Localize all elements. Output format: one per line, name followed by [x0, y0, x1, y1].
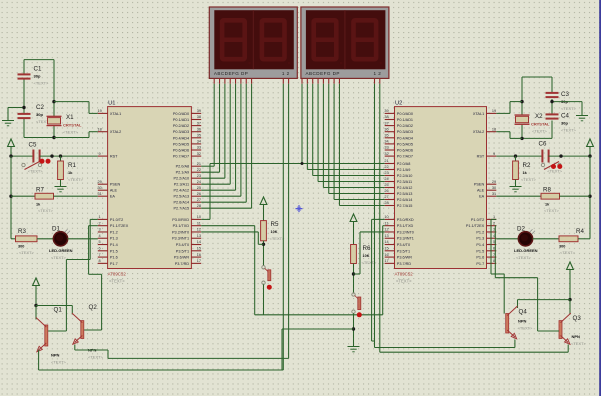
svg-text:ALE: ALE [110, 189, 118, 193]
svg-text:6: 6 [99, 247, 101, 251]
transistor Q1 NPN [45, 325, 48, 346]
svg-text:<TEXT>: <TEXT> [51, 255, 67, 260]
svg-text:P3.7/RD: P3.7/RD [175, 262, 190, 266]
wire R5 bottom to junction [263, 241, 265, 266]
svg-text:30p: 30p [36, 112, 43, 117]
wire Q4 emitter to DISP2 digit 1 rail [514, 340, 516, 348]
push switch (right, P3.2 of U2) [352, 293, 355, 296]
svg-text:30: 30 [492, 186, 496, 190]
svg-text:<TEXT>: <TEXT> [68, 177, 84, 182]
svg-text:7: 7 [493, 253, 495, 257]
svg-text:18: 18 [492, 127, 496, 131]
svg-text:P0.7/AD7: P0.7/AD7 [173, 155, 189, 159]
microcontroller U2 AT89C52 pin 34 P0.5/AD5 [385, 143, 395, 145]
svg-text:RST: RST [110, 155, 118, 159]
svg-text:P3.6/WR: P3.6/WR [174, 256, 189, 260]
microcontroller U1 AT89C52 pin 9 RST [98, 155, 108, 157]
microcontroller U1 AT89C52 pin 33 P0.6/AD6 [191, 149, 201, 151]
microcontroller U1 AT89C52 pin 36 P0.3/AD3 [191, 131, 201, 133]
resistor R1 10k [58, 161, 64, 180]
microcontroller U2 AT89C52 pin 29 PSEN [487, 183, 497, 185]
svg-text:P0.7/AD7: P0.7/AD7 [397, 155, 413, 159]
wire VCC arrow to collector node [35, 286, 37, 306]
wire bottom connecting C2 branch to X1 branch [24, 137, 54, 139]
microcontroller U1 AT89C52 pin 5 P1.4 [98, 244, 108, 246]
red marker right switch [357, 312, 362, 317]
wire X2 to XTAL1 of U2 [510, 101, 522, 103]
microcontroller U2 AT89C52 pin 30 ALE [487, 189, 497, 191]
microcontroller U2 AT89C52 pin 15 P3.5/T1 [385, 250, 395, 252]
wire VCC rail right down to R8 and R4 rows [589, 156, 591, 239]
svg-text:P2.3/A11: P2.3/A11 [174, 183, 189, 187]
microcontroller U1 AT89C52 pin 39 P0.0/AD0 [191, 112, 201, 114]
svg-text:<TEXT>: <TEXT> [544, 208, 560, 213]
svg-text:13: 13 [197, 234, 201, 238]
svg-text:15: 15 [197, 247, 201, 251]
junction RST rail right at R2 [514, 154, 517, 157]
svg-text:Q1: Q1 [54, 307, 63, 314]
svg-text:3: 3 [99, 228, 101, 232]
svg-text:34: 34 [384, 140, 388, 144]
svg-text:P3.5/T1: P3.5/T1 [397, 249, 410, 253]
junction switch/ground [352, 327, 355, 330]
ground (R1) [60, 182, 62, 187]
svg-text:<TEXT>: <TEXT> [28, 169, 44, 174]
svg-text:2: 2 [493, 221, 495, 225]
wire U2 P2.6 to DISP2 segment G [333, 84, 335, 200]
svg-text:23: 23 [197, 174, 201, 178]
svg-text:27: 27 [197, 198, 201, 202]
wire EA pin of U2 to R8 [496, 195, 541, 197]
wire U1 P3.2 to R5 junction [201, 231, 258, 233]
wire U1 P1.0 to Q1 base [90, 218, 98, 220]
microcontroller U1 AT89C52 pin 11 P3.1/TXD [191, 225, 201, 227]
wire R1 to ground [60, 180, 62, 183]
svg-text:10K: 10K [363, 254, 370, 258]
svg-text:34: 34 [197, 140, 201, 144]
wire VCC rail down to R7 and R3 rows [10, 156, 12, 239]
svg-text:R5: R5 [271, 221, 279, 228]
wire left switch bottom down to cross net [263, 284, 265, 314]
svg-text:P0.5/AD5: P0.5/AD5 [397, 142, 413, 146]
wire ground branch from C3/C4 node [552, 101, 582, 103]
wire X2 vertical node [521, 77, 523, 115]
red marker left switch [267, 285, 272, 290]
svg-text:ALE: ALE [477, 189, 485, 193]
microcontroller U1 AT89C52 pin 26 P2.5/A13 [191, 195, 201, 197]
junction RST rail left [9, 154, 12, 157]
svg-text:16: 16 [384, 253, 388, 257]
wire VCC arrow to collector node right [569, 270, 571, 300]
svg-text:38: 38 [197, 115, 201, 119]
microcontroller U1 AT89C52 pin 6 P1.5 [98, 250, 108, 252]
junction at R7 row [9, 195, 12, 198]
wire Q3 emitter to DISP2 digit 2 rail [567, 345, 569, 353]
svg-text:P3.6/WR: P3.6/WR [397, 256, 412, 260]
microcontroller U1 AT89C52 pin 1 P1.0/T2 [98, 218, 108, 220]
microcontroller U2 AT89C52 pin 21 P2.0/A8 [385, 163, 395, 165]
wire R1 top stub [60, 156, 62, 161]
svg-text:P3.3/INT1: P3.3/INT1 [397, 237, 414, 241]
microcontroller U2 AT89C52 pin 7 P1.6 [487, 256, 497, 258]
svg-text:<TEXT>: <TEXT> [560, 250, 576, 255]
svg-text:300: 300 [559, 245, 565, 249]
svg-text:29: 29 [492, 180, 496, 184]
wire R3 to D1 [37, 238, 53, 240]
svg-text:29: 29 [97, 180, 101, 184]
microcontroller U1 AT89C52 pin 32 P0.7/AD7 [191, 155, 201, 157]
microcontroller U1 AT89C52 pin 37 P0.2/AD2 [191, 125, 201, 127]
svg-text:37: 37 [197, 121, 201, 125]
wire R7 to EA pin of U1 [54, 195, 98, 197]
microcontroller U1 AT89C52 pin 3 P1.2 [98, 231, 108, 233]
ground (center switches) [353, 342, 355, 347]
svg-text:C5: C5 [29, 142, 37, 149]
wire U1 P2.5 to DISP1 segment F [240, 84, 242, 196]
wire U1 P2.0 to DISP1 segment A [213, 84, 215, 166]
microcontroller U2 AT89C52 pin 38 P0.1/AD1 [385, 119, 395, 121]
microcontroller U1 AT89C52 pin 24 P2.3/A11 [191, 183, 201, 185]
wire U2 P1.1 to Q3 base [495, 225, 496, 227]
capacitor C3 30p [546, 92, 559, 94]
resistor R5 10K [261, 221, 267, 241]
svg-text:17: 17 [384, 259, 388, 263]
svg-text:P2.6/A14: P2.6/A14 [397, 198, 413, 202]
svg-text:CRYSTAL: CRYSTAL [531, 122, 550, 127]
svg-text:11: 11 [197, 221, 201, 225]
microcontroller U1 AT89C52 pin 38 P0.1/AD1 [191, 119, 201, 121]
wire VCC arrow to R6 [353, 222, 355, 245]
svg-text:C6: C6 [539, 141, 547, 148]
svg-text:24: 24 [197, 180, 201, 184]
svg-text:Q4: Q4 [519, 309, 528, 316]
ground (R2) [515, 182, 517, 187]
microcontroller U1 AT89C52 pin 23 P2.2/A10 [191, 177, 201, 179]
microcontroller U1 AT89C52 pin 18 XTAL2 [98, 131, 108, 133]
svg-text:XTAL1: XTAL1 [110, 112, 121, 116]
svg-text:38: 38 [384, 115, 388, 119]
svg-text:7: 7 [99, 253, 101, 257]
svg-text:21: 21 [197, 162, 201, 166]
svg-text:36: 36 [197, 127, 201, 131]
wire ground link from bottom rail [282, 328, 354, 330]
resistor R6 10K [351, 245, 357, 264]
svg-text:R6: R6 [363, 245, 371, 252]
svg-text:P0.3/AD3: P0.3/AD3 [173, 130, 189, 134]
wire U2 P3.2 to R6 junction [354, 273, 361, 275]
microcontroller U2 AT89C52 pin 31 EA [487, 195, 497, 197]
svg-text:P1.0/T2: P1.0/T2 [471, 218, 484, 222]
svg-text:P0.4/AD4: P0.4/AD4 [397, 136, 413, 140]
svg-text:P3.0/RXD: P3.0/RXD [397, 218, 414, 222]
7-segment display DISP1 (2-digit, common anode) [209, 7, 297, 78]
svg-text:R2: R2 [523, 162, 531, 169]
junction C1/C2-ground [22, 106, 25, 109]
svg-text:<TEXT>: <TEXT> [532, 129, 548, 134]
microcontroller U2 AT89C52 pin 35 P0.4/AD4 [385, 137, 395, 139]
svg-text:37: 37 [384, 121, 388, 125]
wire U1 P2.7 to DISP1 segment DP [251, 84, 253, 208]
svg-text:ABCDEFG DP: ABCDEFG DP [214, 71, 248, 76]
wire X1 to XTAL2 [54, 137, 89, 139]
microcontroller U2 AT89C52 pin 1 P1.0/T2 [487, 218, 497, 220]
wire RST pin of U2 to R2/C6 [496, 155, 542, 157]
junction R5/P3.2/button [262, 243, 265, 246]
svg-text:P2.1/A9: P2.1/A9 [397, 168, 411, 172]
wire U1 P2.3 to DISP1 segment D [229, 84, 231, 184]
svg-text:39: 39 [197, 109, 201, 113]
svg-text:D1: D1 [52, 226, 60, 233]
svg-text:C2: C2 [36, 104, 44, 111]
microcontroller U2 AT89C52 pin 8 P1.7 [487, 262, 497, 264]
wire R7 row left segment [11, 195, 35, 197]
svg-text:5: 5 [99, 240, 101, 244]
svg-text:19: 19 [97, 109, 101, 113]
svg-text:P3.4/T0: P3.4/T0 [397, 243, 410, 247]
svg-text:26: 26 [384, 189, 388, 193]
svg-text:C4: C4 [561, 113, 569, 120]
transistor Q3 NPN [559, 321, 562, 339]
microcontroller U1 AT89C52 pin 12 P3.2/INT0 [191, 231, 201, 233]
svg-text:RST: RST [477, 155, 485, 159]
svg-text:P1.6: P1.6 [476, 256, 484, 260]
svg-text:<TEXT>: <TEXT> [561, 106, 577, 111]
microcontroller U1 AT89C52 pin 16 P3.6/WR [191, 256, 201, 258]
svg-text:P2.5/A13: P2.5/A13 [173, 195, 189, 199]
svg-text:24: 24 [384, 177, 388, 181]
svg-text:AT89C52: AT89C52 [108, 272, 127, 277]
svg-text:8: 8 [99, 259, 101, 263]
svg-text:P0.0/AD0: P0.0/AD0 [173, 112, 189, 116]
svg-text:P1.5: P1.5 [110, 249, 118, 253]
power VCC arrow (R6) [350, 214, 357, 222]
microcontroller U2 AT89C52 pin 32 P0.7/AD7 [385, 155, 395, 157]
wire U2 P2.5 to DISP2 segment F [328, 84, 330, 194]
svg-text:D2: D2 [517, 226, 525, 233]
microcontroller U2 AT89C52 pin 14 P3.4/T0 [385, 244, 395, 246]
svg-text:14: 14 [384, 240, 388, 244]
wire R3 row from VCC rail [11, 238, 18, 240]
svg-text:30p: 30p [34, 74, 41, 79]
svg-text:<TEXT>: <TEXT> [19, 250, 35, 255]
microcontroller U2 AT89C52 pin 39 P0.0/AD0 [385, 112, 395, 114]
microcontroller U2 AT89C52 pin 5 P1.4 [487, 244, 497, 246]
microcontroller U1 AT89C52 [108, 107, 192, 269]
wire U1 P1.1 to Q2 base [89, 225, 98, 227]
wire U2 P2.2 to DISP2 segment C [312, 84, 314, 176]
microcontroller U1 AT89C52 pin 19 XTAL1 [98, 112, 108, 114]
svg-text:33: 33 [197, 146, 201, 150]
svg-text:32: 32 [384, 152, 388, 156]
junction DISP2 segment A on long net [301, 162, 304, 165]
wire collector node down to Q1 collector [35, 306, 37, 320]
resistor R8 1k [541, 193, 560, 199]
svg-text:35: 35 [384, 134, 388, 138]
wire collector node down to Q3 collector [569, 300, 571, 315]
wire R6 bottom to junction [353, 264, 355, 293]
svg-text:P1.4: P1.4 [476, 243, 484, 247]
wire U1 P2.2 to DISP1 segment C [224, 84, 226, 178]
microcontroller U2 AT89C52 [395, 107, 487, 269]
wire bottom connecting X2 branch to C3 branch [522, 137, 552, 139]
svg-text:NPN: NPN [518, 319, 527, 324]
svg-text:P2.2/A10: P2.2/A10 [173, 177, 189, 181]
svg-text:P1.3: P1.3 [476, 237, 484, 241]
microcontroller U1 AT89C52 pin 31 EA [98, 195, 108, 197]
svg-text:23: 23 [384, 171, 388, 175]
svg-text:21: 21 [384, 159, 388, 163]
svg-text:P0.6/AD6: P0.6/AD6 [397, 149, 413, 153]
power VCC arrow (Q1/Q2 collectors) [33, 278, 40, 286]
svg-text:R8: R8 [543, 187, 551, 194]
svg-text:AT89C52: AT89C52 [395, 272, 414, 277]
svg-text:18: 18 [97, 127, 101, 131]
svg-text:P0.1/AD1: P0.1/AD1 [173, 118, 189, 122]
wire top connecting X2 branch to C3 branch [522, 76, 552, 78]
push switch (left, P3.2) [262, 266, 265, 269]
microcontroller U1 AT89C52 pin 17 P3.7/RD [191, 262, 201, 264]
svg-text:<TEXT>: <TEXT> [88, 355, 104, 360]
svg-text:P0.5/AD5: P0.5/AD5 [173, 142, 189, 146]
wire R4 to VCC rail right [578, 238, 590, 240]
ground (crystal cluster right) [581, 111, 583, 116]
svg-text:P0.2/AD2: P0.2/AD2 [397, 124, 413, 128]
capacitor C6 (reset) [541, 150, 543, 163]
wire ground branch from C1/C2 node [8, 107, 24, 109]
power VCC arrow (Q3/Q4 collectors) [567, 262, 574, 270]
svg-text:28: 28 [197, 204, 201, 208]
microcontroller U2 AT89C52 pin 13 P3.3/INT1 [385, 237, 395, 239]
svg-text:XTAL2: XTAL2 [473, 130, 484, 134]
microcontroller U1 AT89C52 pin 4 P1.3 [98, 237, 108, 239]
svg-text:1: 1 [99, 215, 101, 219]
wire D2 to R4 [533, 238, 559, 240]
svg-text:12: 12 [384, 228, 388, 232]
svg-text:39: 39 [384, 109, 388, 113]
wire X1 vertical node [53, 60, 55, 116]
wire C1/C2 left vertical node [23, 60, 25, 75]
svg-text:30: 30 [97, 186, 101, 190]
svg-text:P1.6: P1.6 [110, 256, 118, 260]
wire R2 to ground [515, 180, 517, 183]
svg-text:300: 300 [18, 245, 24, 249]
wire VCC arrow to R5 [263, 205, 265, 221]
wire U2 P2.1 to DISP2 segment B [306, 84, 308, 170]
svg-text:P2.0/A8: P2.0/A8 [397, 162, 411, 166]
junction at R8 row [588, 195, 591, 198]
svg-text:XTAL2: XTAL2 [110, 130, 121, 134]
svg-text:P2.4/A12: P2.4/A12 [173, 189, 189, 193]
svg-text:5: 5 [493, 240, 495, 244]
microcontroller U2 AT89C52 pin 11 P3.1/TXD [385, 225, 395, 227]
wire U1 P2.6 to DISP1 segment G [245, 84, 247, 202]
svg-text:P1.1/T2EX: P1.1/T2EX [466, 224, 485, 228]
crystal X2 [515, 114, 530, 116]
svg-text:C3: C3 [561, 91, 569, 98]
junction C3/C4-ground [550, 100, 553, 103]
microcontroller U1 AT89C52 pin 14 P3.4/T0 [191, 244, 201, 246]
svg-text:P3.0/RXD: P3.0/RXD [172, 218, 189, 222]
svg-text:9: 9 [493, 152, 495, 156]
svg-text:X2: X2 [535, 113, 543, 120]
microcontroller U1 AT89C52 pin 21 P2.0/A8 [191, 165, 201, 167]
wire cross net U1 P3.1 to U2 P3.1 [201, 225, 255, 227]
DISP2 pins A-G,DP,1,2 [301, 78, 303, 83]
svg-text:<TEXT>: <TEXT> [51, 360, 67, 365]
svg-text:P3.7/RD: P3.7/RD [397, 262, 412, 266]
resistor R2 10k [513, 161, 519, 180]
svg-text:30p: 30p [561, 121, 568, 126]
wire collector node to Q4 collector [518, 299, 571, 301]
microcontroller U1 AT89C52 pin 25 P2.4/A12 [191, 189, 201, 191]
svg-text:P2.0/A8: P2.0/A8 [176, 165, 190, 169]
resistor R7 1k [35, 193, 54, 199]
capacitor C1 30p [18, 73, 31, 75]
svg-text:P3.2/INT0: P3.2/INT0 [172, 230, 189, 234]
svg-text:12: 12 [374, 71, 384, 76]
svg-text:P3.5/T1: P3.5/T1 [176, 249, 189, 253]
junction X2 bottom [520, 137, 523, 140]
svg-text:11: 11 [385, 221, 389, 225]
wire U2 P1.0 to Q4 base [491, 218, 496, 220]
wire collector node to Q2 collector [36, 305, 72, 307]
junction Q3/Q4 collector node [568, 298, 571, 301]
svg-text:27: 27 [384, 195, 388, 199]
DISP1 pins A-G,DP,1,2 [213, 78, 215, 83]
microcontroller U2 AT89C52 pin 18 XTAL2 [487, 131, 497, 133]
window border (right, blue) [599, 0, 601, 396]
svg-text:10K: 10K [271, 230, 278, 234]
svg-text:NPN: NPN [572, 334, 581, 339]
wire C3/C4 right vertical node [551, 77, 553, 93]
microcontroller U2 AT89C52 pin 6 P1.5 [487, 250, 497, 252]
svg-text:4: 4 [99, 234, 101, 238]
svg-text:PSEN: PSEN [474, 183, 485, 187]
junction R6/P3.2 of U2 [352, 272, 355, 275]
wire U2 P3.0 stub down to digit rail [372, 218, 385, 220]
svg-text:CRYSTAL: CRYSTAL [63, 123, 82, 128]
microcontroller U2 AT89C52 pin 3 P1.2 [487, 231, 497, 233]
svg-text:28: 28 [384, 201, 388, 205]
microcontroller U1 AT89C52 pin 13 P3.3/INT1 [191, 237, 201, 239]
wire R2 top stub [515, 156, 517, 161]
microcontroller U2 AT89C52 pin 26 P2.5/A13 [385, 193, 395, 195]
svg-text:25: 25 [197, 186, 201, 190]
wire D1 to P1.3 of U1 [68, 238, 98, 240]
microcontroller U1 AT89C52 pin 8 P1.7 [98, 262, 108, 264]
svg-text:10: 10 [197, 215, 201, 219]
microcontroller U2 AT89C52 pin 28 P2.7/A15 [385, 205, 395, 207]
svg-text:15: 15 [384, 247, 388, 251]
svg-text:P2.5/A13: P2.5/A13 [397, 192, 413, 196]
wire U2 P2.3 to DISP2 segment D [317, 84, 319, 182]
microcontroller U1 AT89C52 pin 30 ALE [98, 189, 108, 191]
wire X1 to XTAL1 [54, 101, 89, 103]
wire VCC arrow down to RST rail right [589, 147, 591, 157]
microcontroller U2 AT89C52 pin 24 P2.3/A11 [385, 181, 395, 183]
svg-text:NPN: NPN [51, 353, 60, 358]
svg-text:36: 36 [384, 127, 388, 131]
microcontroller U1 AT89C52 pin 10 P3.0/RXD [191, 218, 201, 220]
resistor R4 300 [559, 236, 578, 242]
svg-text:EA: EA [479, 195, 485, 199]
svg-text:19: 19 [492, 109, 496, 113]
junction RST rail at button [50, 154, 53, 157]
svg-text:P0.0/AD0: P0.0/AD0 [397, 112, 413, 116]
svg-text:Q2: Q2 [89, 304, 98, 311]
microcontroller U2 AT89C52 pin 9 RST [487, 155, 497, 157]
svg-text:P0.3/AD3: P0.3/AD3 [397, 130, 413, 134]
